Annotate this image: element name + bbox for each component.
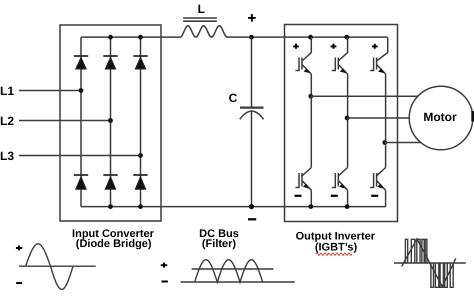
PWM waveform axis — [394, 262, 466, 264]
wire phase L3 — [19, 155, 141, 157]
node L1-leg1 junction — [79, 88, 84, 93]
diode D4 bottom — [74, 175, 88, 189]
output inverter box — [285, 25, 398, 222]
transistor Q6 lower IGBT — [377, 168, 386, 191]
label minus input waveform — [16, 282, 22, 284]
wire bridge leg 1 — [80, 37, 82, 206]
node L2-leg2 junction — [108, 118, 113, 123]
wire positive DC rail (bridge to inductor) — [81, 36, 180, 38]
label plus input waveform — [16, 245, 22, 250]
inductor L core bars — [183, 18, 217, 21]
DC bus waveform average line — [192, 268, 274, 270]
diode D3 top — [133, 56, 147, 69]
transistor Q2 lower IGBT — [302, 168, 311, 191]
capacitor C flat plate — [240, 106, 264, 108]
capacitor C bottom lead — [251, 111, 253, 206]
PWM negative pulses — [431, 263, 453, 287]
diode D6 bottom — [133, 175, 147, 189]
wire leg2 to motor — [347, 117, 409, 119]
input sine waveform — [26, 244, 73, 290]
wire positive DC rail (inductor to inverter) — [227, 36, 388, 38]
wire leg2 upper emitter — [347, 74, 349, 118]
label minus DC bus waveform — [162, 281, 168, 283]
input sine waveform axis — [19, 265, 96, 267]
svg-text:L3: L3 — [0, 149, 14, 163]
label plus DC bus — [248, 14, 256, 22]
diode D2 top — [103, 56, 117, 69]
label minus leg3 — [371, 195, 378, 197]
wire leg3 to motor — [385, 142, 421, 144]
label plus leg2 — [331, 44, 337, 49]
PWM fundamental sine overlay — [402, 239, 456, 287]
svg-text:(IGBT’s): (IGBT’s) — [315, 242, 358, 254]
spellcheck squiggle under IGBT's — [316, 253, 352, 255]
capacitor C curved plate — [240, 111, 264, 119]
node inverter top rail leg1 — [308, 35, 313, 40]
node bottom rail leg2 — [345, 204, 350, 209]
wire phase L1 — [19, 90, 81, 92]
input converter box — [60, 25, 161, 221]
label plus leg1 — [293, 44, 299, 49]
node bottom rail leg3 — [138, 204, 143, 209]
node bottom rail leg1 — [308, 204, 313, 209]
minus sign DC bus — [248, 218, 256, 220]
motor shaft stub — [471, 111, 474, 122]
transistor Q3 upper IGBT — [338, 37, 347, 74]
node DC- junction — [249, 204, 254, 209]
svg-text:L: L — [198, 2, 205, 16]
wire leg3 lower emitter — [385, 190, 387, 206]
label minus leg1 — [295, 195, 302, 197]
IGBT leg 3 — [370, 37, 420, 206]
wire leg1 to motor — [311, 95, 419, 97]
DC bus waveform baseline — [181, 281, 295, 283]
svg-text:(Diode Bridge): (Diode Bridge) — [76, 238, 152, 250]
wire leg1 lower emitter — [310, 190, 312, 206]
node leg1 output — [308, 94, 313, 99]
svg-text:Motor: Motor — [423, 110, 457, 124]
node top rail leg3 — [138, 35, 143, 40]
wire leg1 lower collector — [310, 96, 312, 167]
node L3-leg3 junction — [138, 153, 143, 158]
svg-text:L2: L2 — [0, 114, 14, 128]
DC bus rectified humps — [195, 260, 263, 283]
svg-text:C: C — [229, 91, 238, 105]
wire leg3 lower collector — [385, 143, 387, 168]
inductor L coil — [180, 26, 227, 37]
svg-text:L1: L1 — [0, 84, 14, 98]
capacitor C top lead — [251, 37, 253, 106]
transistor Q1 upper IGBT — [302, 37, 311, 74]
wire leg3 upper emitter — [385, 74, 387, 143]
wire phase L2 — [19, 120, 111, 122]
wire bridge leg 3 — [140, 37, 142, 206]
transistor Q4 lower IGBT — [338, 168, 347, 191]
node inverter top rail leg2 — [344, 35, 349, 40]
node bottom rail leg2 — [108, 204, 113, 209]
transistor Q5 upper IGBT — [377, 37, 388, 74]
motor M1 — [409, 86, 473, 150]
node leg2 output — [345, 116, 350, 121]
diode D1 top — [74, 56, 88, 69]
wire leg1 upper emitter — [310, 74, 312, 96]
PWM positive pulses — [405, 239, 427, 263]
IGBT leg 1 — [296, 35, 419, 209]
label plus leg3 — [372, 44, 378, 49]
wire negative DC rail — [81, 206, 386, 208]
node leg3 output — [382, 140, 387, 145]
node top rail leg2 — [108, 35, 113, 40]
wire leg2 lower collector — [347, 118, 349, 168]
diode D5 bottom — [103, 175, 117, 189]
wire leg2 lower emitter — [347, 190, 349, 206]
node DC+ junction — [249, 35, 254, 40]
label plus DC bus waveform — [161, 263, 167, 268]
label minus leg2 — [331, 195, 338, 197]
svg-text:(Filter): (Filter) — [202, 238, 237, 250]
wire bridge leg 2 — [110, 37, 112, 206]
IGBT leg 2 — [332, 35, 410, 209]
